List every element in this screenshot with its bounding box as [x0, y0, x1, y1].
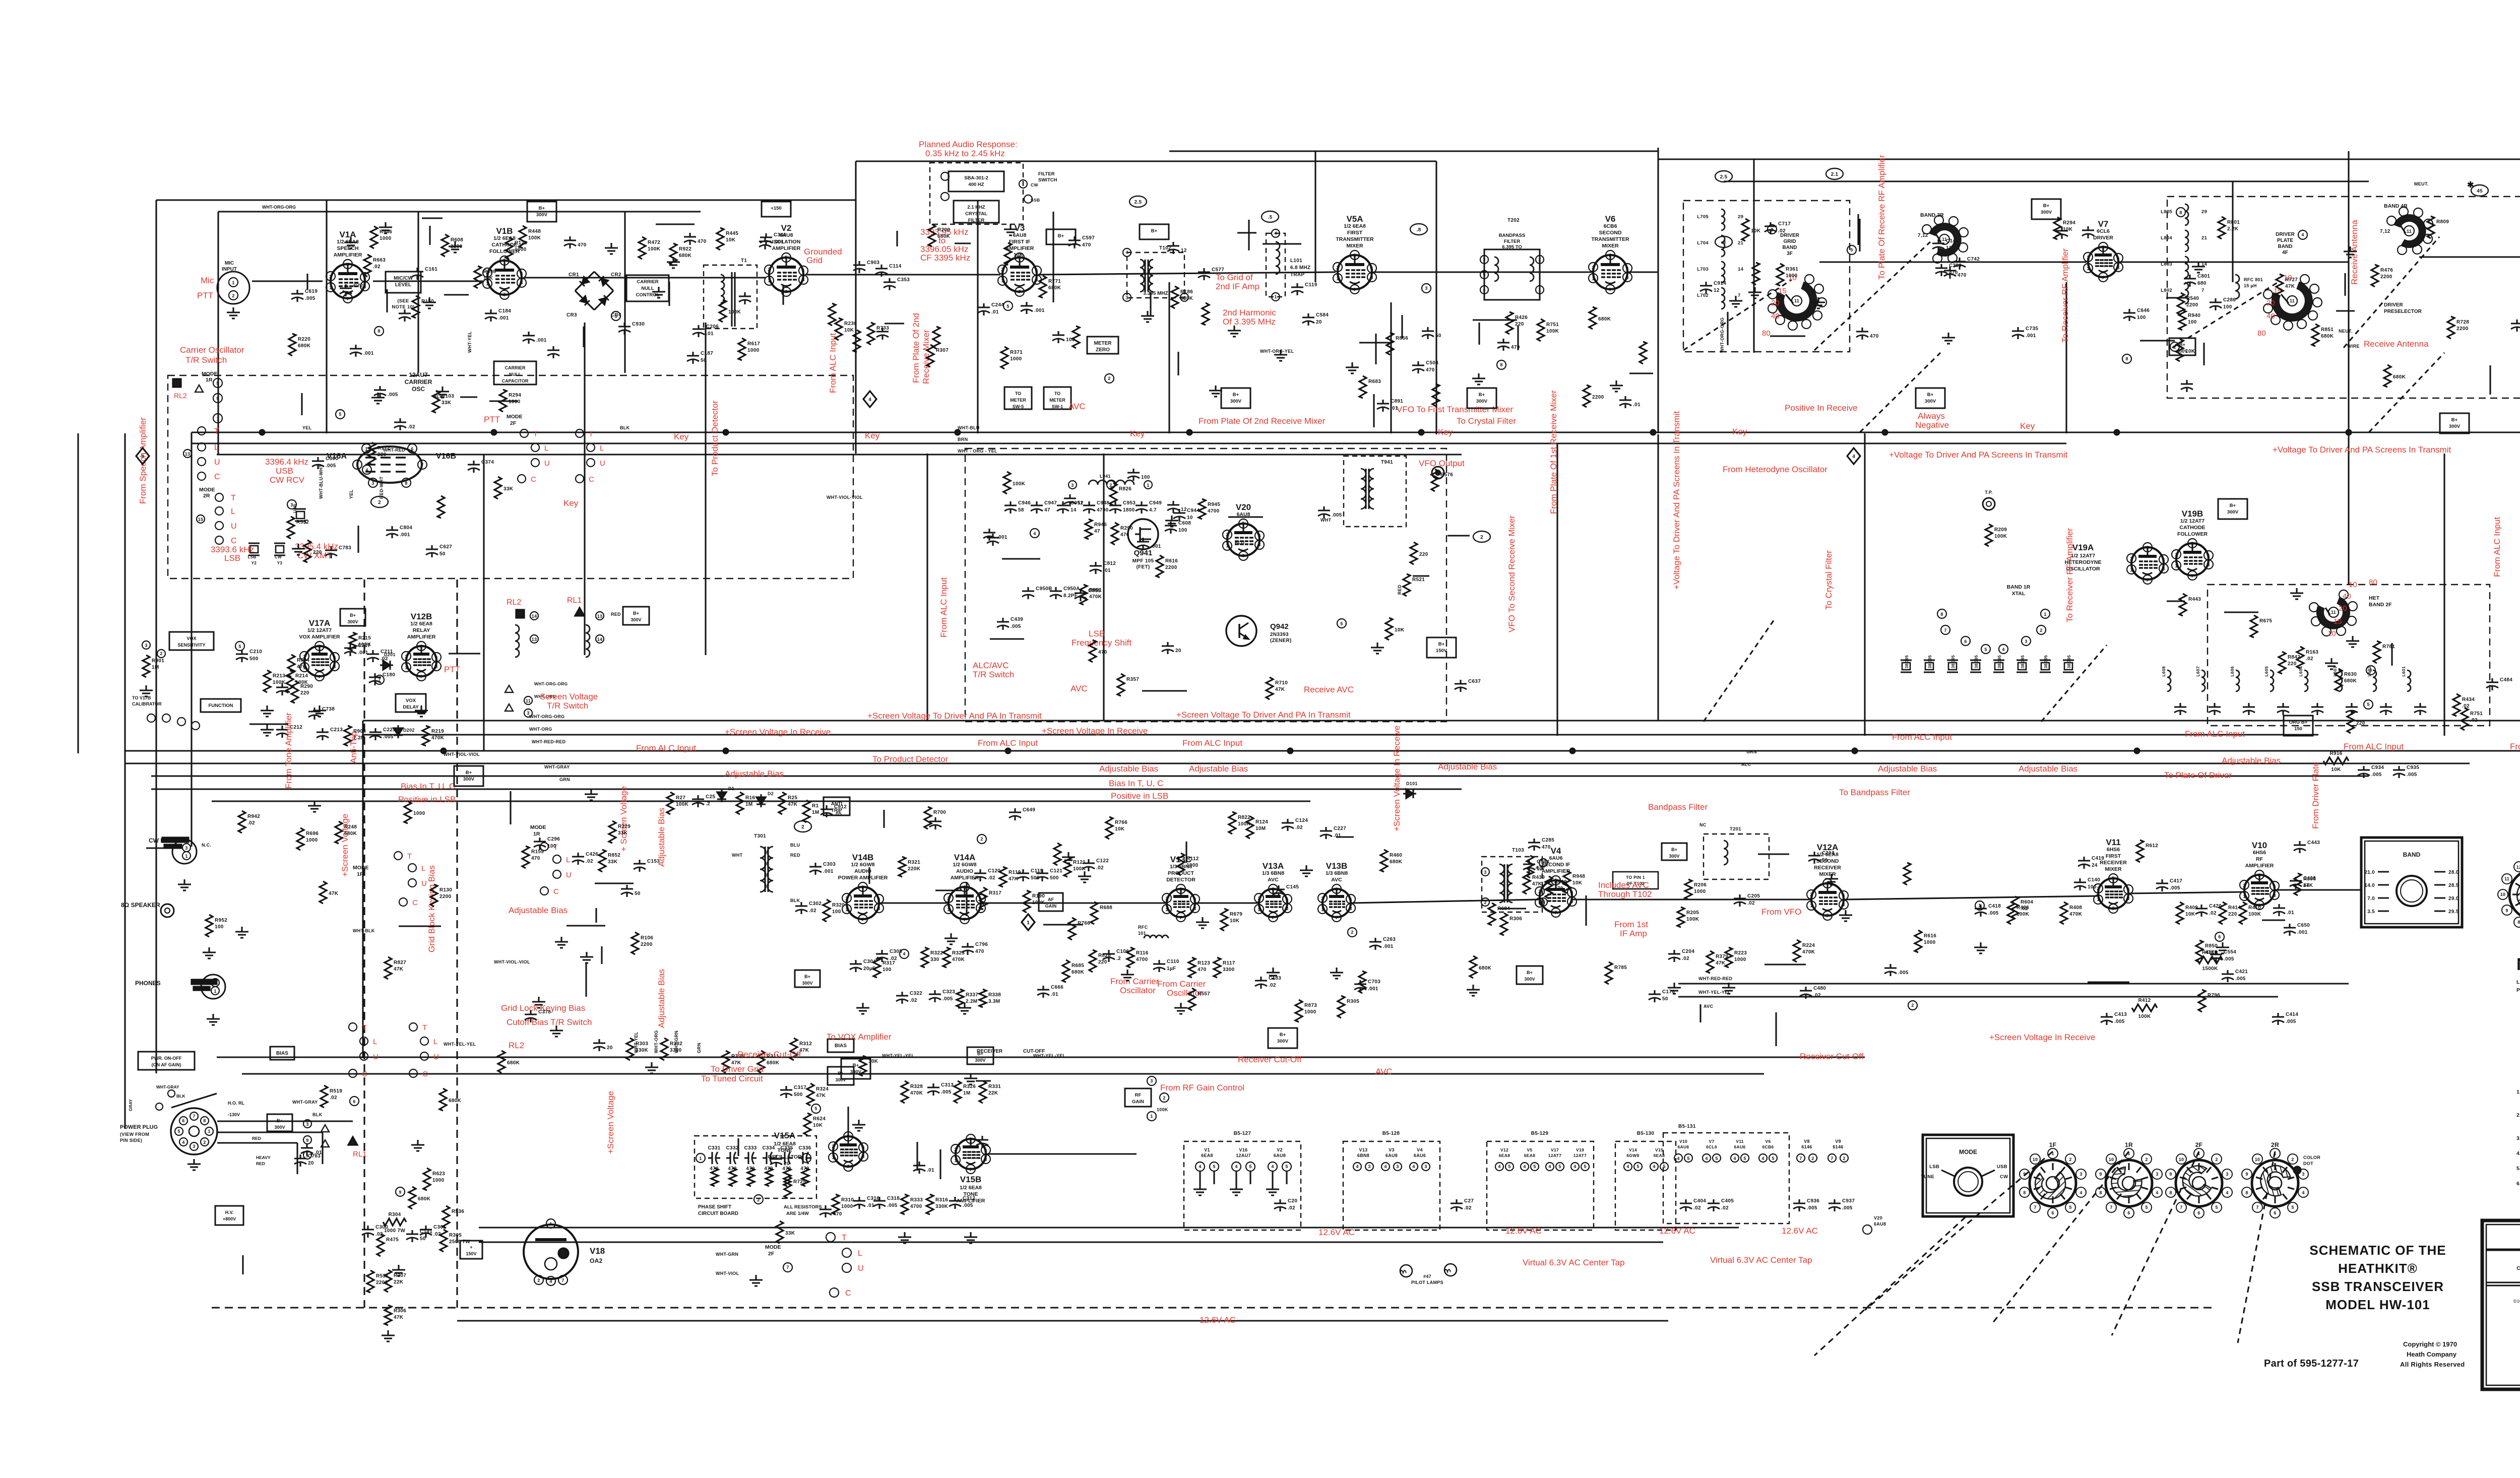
- svg-text:Adjustable Bias: Adjustable Bias: [1878, 764, 1937, 774]
- svg-text:C300: C300: [375, 1225, 388, 1230]
- svg-text:B+: B+: [1479, 392, 1485, 398]
- svg-text:V17: V17: [1551, 1147, 1559, 1152]
- svg-text:3: 3: [1396, 1164, 1399, 1169]
- svg-text:2: 2: [954, 1147, 957, 1152]
- svg-text:6146: 6146: [1801, 1144, 1812, 1149]
- svg-text:1000: 1000: [306, 838, 318, 843]
- svg-text:2: 2: [203, 1140, 206, 1145]
- svg-text:WHT-ORG-ORG: WHT-ORG-ORG: [262, 205, 296, 210]
- svg-text:.01: .01: [2287, 910, 2294, 916]
- svg-text:7: 7: [421, 463, 423, 468]
- includes AVC box: [1613, 872, 1658, 889]
- svg-text:From ALC Input: From ALC Input: [2510, 742, 2520, 751]
- svg-text:470: 470: [1870, 334, 1879, 339]
- svg-text:L: L: [373, 1038, 377, 1046]
- svg-text:R220: R220: [298, 337, 310, 342]
- svg-text:5: 5: [1179, 887, 1182, 892]
- svg-text:C891: C891: [1391, 399, 1403, 404]
- svg-text:C140: C140: [2088, 877, 2100, 883]
- heterodyne coil bank L601-L608: [2167, 670, 2171, 691]
- svg-text:7: 7: [1738, 293, 1741, 298]
- power switch box: [138, 1052, 195, 1070]
- svg-text:B+: B+: [350, 613, 356, 618]
- svg-text:3: 3: [145, 643, 147, 648]
- component cluster receiver mixers: [2196, 940, 2203, 962]
- VOX sensitivity control: [169, 632, 214, 650]
- svg-text:C950B: C950B: [1036, 586, 1052, 592]
- svg-text:1000: 1000: [380, 236, 392, 241]
- svg-text:.2: .2: [1116, 956, 1121, 961]
- svg-text:3F: 3F: [1787, 251, 1793, 256]
- svg-text:500: 500: [1050, 875, 1059, 881]
- svg-text:C322: C322: [910, 991, 922, 996]
- svg-text:2.1 KHZ: 2.1 KHZ: [967, 205, 985, 210]
- svg-text:.02: .02: [2021, 906, 2028, 912]
- svg-text:BAND 2F: BAND 2F: [2369, 602, 2392, 608]
- svg-text:MODE: MODE: [202, 371, 218, 377]
- svg-text:2200: 2200: [2456, 326, 2469, 332]
- svg-text:MIXER: MIXER: [2105, 866, 2122, 872]
- svg-text:33K: 33K: [503, 486, 514, 492]
- svg-text:6: 6: [862, 1145, 864, 1150]
- svg-text:ARE 1/4W: ARE 1/4W: [786, 1211, 809, 1216]
- svg-text:10: 10: [2255, 1157, 2260, 1162]
- tube V10: [2244, 875, 2275, 905]
- svg-text:C723: C723: [353, 283, 366, 289]
- svg-text:SECOND: SECOND: [1599, 230, 1622, 236]
- svg-text:C332: C332: [726, 1145, 738, 1151]
- svg-text:Adjustable Bias: Adjustable Bias: [509, 906, 568, 915]
- svg-text:15: 15: [1778, 287, 1787, 295]
- svg-text:5: 5: [216, 381, 219, 386]
- svg-text:5: 5: [318, 644, 321, 649]
- svg-text:6: 6: [1570, 890, 1573, 895]
- svg-text:100K: 100K: [1994, 534, 2007, 539]
- svg-text:470: 470: [1536, 865, 1545, 871]
- svg-text:C503: C503: [1426, 360, 1438, 366]
- svg-text:R290: R290: [1120, 526, 1133, 531]
- svg-text:To Bandpass Filter: To Bandpass Filter: [1839, 788, 1910, 797]
- svg-text:C180: C180: [383, 672, 395, 678]
- svg-text:Adjustable Bias: Adjustable Bias: [657, 808, 666, 867]
- svg-text:7: 7: [2110, 1205, 2112, 1210]
- svg-text:2: 2: [1811, 1156, 1814, 1161]
- B+ supply boxes: [527, 202, 556, 222]
- svg-text:C953: C953: [1123, 500, 1136, 506]
- svg-text:WHT-YEL-YEL: WHT-YEL-YEL: [1698, 990, 1731, 995]
- svg-text:0.35 kHz to 2.45 kHz: 0.35 kHz to 2.45 kHz: [925, 149, 1005, 158]
- svg-text:.01: .01: [1051, 992, 1058, 997]
- svg-text:L705: L705: [1697, 214, 1709, 220]
- svg-text:HET: HET: [2369, 595, 2380, 601]
- svg-text:1/3 6BN8: 1/3 6BN8: [1262, 870, 1285, 876]
- svg-text:80: 80: [2257, 329, 2266, 338]
- V14 support: [899, 857, 906, 877]
- svg-text:R312: R312: [799, 1041, 812, 1047]
- svg-text:.01: .01: [1391, 406, 1398, 411]
- svg-text:FUNCTION: FUNCTION: [208, 703, 233, 709]
- svg-text:6CL6: 6CL6: [1706, 1144, 1717, 1149]
- svg-text:300V: 300V: [1925, 399, 1936, 404]
- svg-text:SWITCH: SWITCH: [1038, 177, 1057, 183]
- svg-text:DOT: DOT: [2303, 1161, 2313, 1166]
- svg-text:3396.4 kHz: 3396.4 kHz: [265, 457, 308, 467]
- svg-text:.005: .005: [1898, 970, 1909, 976]
- svg-text:6EA8: 6EA8: [1499, 1153, 1510, 1158]
- svg-text:10: 10: [2349, 581, 2357, 589]
- svg-text:4: 4: [1677, 1156, 1679, 1161]
- svg-text:6AU6: 6AU6: [1678, 1144, 1689, 1149]
- svg-text:R476: R476: [2380, 268, 2393, 273]
- svg-text:R361: R361: [1786, 267, 1798, 272]
- svg-text:47K: 47K: [788, 802, 798, 807]
- AF gain box: [1039, 893, 1063, 911]
- svg-text:C: C: [845, 1289, 851, 1298]
- svg-text:100K: 100K: [2248, 912, 2261, 917]
- svg-text:500: 500: [249, 656, 259, 662]
- svg-text:R785: R785: [1614, 965, 1627, 971]
- svg-text:USB: USB: [276, 466, 293, 476]
- svg-text:6CB6: 6CB6: [1762, 1144, 1774, 1149]
- svg-text:Through T102: Through T102: [1598, 889, 1652, 899]
- svg-text:C120: C120: [988, 868, 1000, 874]
- phones jack: [201, 975, 225, 999]
- svg-text:7: 7: [861, 917, 864, 922]
- svg-text:V14A: V14A: [954, 853, 976, 862]
- svg-text:WHT-YEL: WHT-YEL: [467, 331, 472, 353]
- svg-text:100K: 100K: [648, 246, 661, 252]
- svg-text:C646: C646: [2137, 308, 2150, 313]
- diodes table: [2482, 1220, 2520, 1389]
- svg-text:C205: C205: [1747, 893, 1760, 899]
- svg-text:2: 2: [378, 500, 381, 505]
- svg-text:R106: R106: [641, 935, 653, 941]
- svg-text:.02: .02: [408, 424, 415, 430]
- svg-text:C378: C378: [538, 1009, 551, 1015]
- svg-text:220: 220: [2288, 661, 2297, 667]
- svg-text:5: 5: [1743, 1156, 1746, 1161]
- svg-text:Adjustable Bias: Adjustable Bias: [2019, 764, 2077, 774]
- svg-text:C: C: [214, 473, 220, 481]
- svg-text:T/R Switch: T/R Switch: [185, 355, 227, 365]
- svg-text:1: 1: [216, 416, 219, 421]
- svg-text:C335: C335: [780, 1145, 793, 1151]
- svg-text:470: 470: [1098, 650, 1107, 655]
- svg-text:R781: R781: [2382, 644, 2395, 650]
- svg-text:5: 5: [1984, 647, 1987, 652]
- svg-text:DETECTOR: DETECTOR: [1166, 877, 1195, 883]
- svg-text:2: 2: [768, 267, 770, 272]
- svg-text:R696: R696: [306, 831, 319, 837]
- svg-text:.001: .001: [498, 315, 509, 321]
- svg-text:50: 50: [635, 891, 641, 896]
- svg-text:C313: C313: [941, 1082, 954, 1088]
- svg-text:R371: R371: [1010, 350, 1023, 355]
- svg-text:10K: 10K: [1115, 826, 1125, 832]
- svg-text:4: 4: [1199, 1164, 1201, 1169]
- svg-text:RFC: RFC: [1138, 925, 1148, 930]
- svg-text:300V: 300V: [1476, 399, 1488, 404]
- V17A V12B support parts: [264, 670, 271, 692]
- svg-text:BRN: BRN: [958, 437, 968, 442]
- svg-text:2: 2: [160, 651, 162, 656]
- svg-text:10K: 10K: [2331, 767, 2341, 773]
- svg-text:100K: 100K: [528, 235, 541, 241]
- svg-text:(SEE: (SEE: [397, 298, 409, 304]
- svg-text:SCHEMATIC OF THE: SCHEMATIC OF THE: [2309, 1243, 2446, 1258]
- svg-text:1: 1: [1274, 294, 1277, 299]
- svg-text:SPEECH: SPEECH: [337, 245, 358, 251]
- svg-text:C404: C404: [1693, 1198, 1706, 1204]
- svg-text:29.0: 29.0: [2448, 896, 2459, 902]
- svg-text:10K: 10K: [1751, 228, 1761, 234]
- svg-text:6AU8: 6AU8: [1874, 1222, 1886, 1227]
- svg-text:MIXER: MIXER: [1346, 243, 1363, 249]
- svg-text:BIAS: BIAS: [835, 1043, 847, 1049]
- svg-text:From ALC Input: From ALC Input: [636, 743, 696, 753]
- svg-text:.005: .005: [941, 1089, 952, 1095]
- svg-text:R229: R229: [618, 824, 631, 829]
- svg-text:V4: V4: [1551, 846, 1561, 856]
- svg-text:B+: B+: [277, 1118, 283, 1123]
- svg-text:V7: V7: [2098, 219, 2109, 229]
- band switch 3R arc: [1932, 227, 1958, 253]
- svg-text:From VFO: From VFO: [1761, 907, 1801, 917]
- svg-text:VOX AMPLIFIER: VOX AMPLIFIER: [299, 634, 340, 640]
- svg-text:8: 8: [1500, 362, 1502, 367]
- svg-text:V13A: V13A: [1263, 861, 1284, 871]
- svg-text:To Grid of: To Grid of: [1216, 273, 1253, 282]
- svg-text:5: 5: [177, 1129, 180, 1134]
- svg-text:WHT-ORG-ORG: WHT-ORG-ORG: [534, 681, 568, 686]
- svg-text:R379: R379: [1716, 954, 1728, 959]
- svg-text:R186: R186: [1180, 289, 1193, 295]
- svg-text:Of 3.395 MHz: Of 3.395 MHz: [1223, 317, 1276, 327]
- svg-text:.02: .02: [1721, 1205, 1729, 1211]
- mode 1F second cluster: [349, 1023, 357, 1031]
- svg-text:1000: 1000: [841, 1204, 853, 1209]
- svg-text:300V: 300V: [1230, 399, 1242, 404]
- svg-text:C935: C935: [2407, 765, 2419, 770]
- driver grid band switch 3F: [1780, 285, 1813, 317]
- svg-text:38.395: 38.395: [2021, 655, 2025, 669]
- svg-text:3: 3: [1125, 295, 1128, 300]
- svg-text:LSB: LSB: [224, 553, 240, 563]
- svg-text:6: 6: [2127, 887, 2129, 892]
- svg-text:33K: 33K: [618, 830, 628, 836]
- svg-text:4: 4: [1626, 1164, 1629, 1169]
- svg-text:C608: C608: [1178, 521, 1191, 526]
- svg-text:R851: R851: [2321, 327, 2334, 333]
- svg-text:6: 6: [1626, 266, 1628, 271]
- svg-text:C119: C119: [1305, 282, 1317, 288]
- svg-text:COMPONENT DESIGNATION: COMPONENT DESIGNATION: [2516, 1265, 2520, 1271]
- svg-text:R531: R531: [376, 1273, 389, 1279]
- VFO output jack: [1432, 467, 1444, 479]
- svg-text:6: 6: [2117, 256, 2119, 261]
- svg-text:47K: 47K: [816, 1093, 826, 1099]
- svg-text:RED: RED: [611, 612, 621, 617]
- svg-text:R248: R248: [344, 824, 357, 830]
- svg-text:PTT: PTT: [197, 291, 213, 300]
- dashed enclosure driver plate band / preselector: [2167, 197, 2520, 398]
- svg-text:C: C: [553, 887, 559, 896]
- svg-text:Carrier Oscillator: Carrier Oscillator: [180, 345, 244, 355]
- svg-text:5: 5: [2145, 1205, 2148, 1210]
- svg-text:12.6V AC: 12.6V AC: [1200, 1315, 1236, 1325]
- svg-text:RECEIVER: RECEIVER: [1814, 865, 1841, 871]
- svg-text:Adjustable Bias: Adjustable Bias: [725, 769, 784, 779]
- svg-text:3.5: 3.5: [2367, 909, 2375, 915]
- svg-text:2: 2: [1592, 265, 1594, 270]
- svg-text:.001: .001: [363, 351, 374, 356]
- svg-text:R688: R688: [1100, 905, 1112, 911]
- svg-text:10: 10: [2033, 1157, 2038, 1162]
- svg-text:CATHODE: CATHODE: [2179, 525, 2205, 531]
- svg-text:R940: R940: [2188, 313, 2200, 318]
- svg-text:100K: 100K: [676, 802, 689, 807]
- svg-text:R624: R624: [813, 1116, 826, 1122]
- svg-text:4: 4: [1271, 1164, 1274, 1169]
- tube V14B: [847, 887, 879, 919]
- svg-text:1: 1: [954, 1158, 957, 1163]
- socket voltage group B5-129: [1487, 1141, 1594, 1230]
- svg-text:MEUT.: MEUT.: [2414, 181, 2429, 186]
- svg-text:6: 6: [2127, 1210, 2130, 1215]
- svg-text:10: 10: [2327, 629, 2336, 638]
- svg-text:B+: B+: [1233, 392, 1239, 398]
- svg-text:1000: 1000: [1924, 940, 1936, 945]
- svg-text:MODE: MODE: [507, 414, 523, 420]
- svg-text:NULL: NULL: [509, 372, 521, 377]
- svg-text:NULL: NULL: [641, 286, 654, 291]
- svg-text:4: 4: [1498, 1164, 1500, 1169]
- svg-text:RED: RED: [252, 1136, 261, 1141]
- svg-text:C738: C738: [322, 706, 335, 712]
- svg-text:3: 3: [2226, 1172, 2228, 1177]
- svg-text:WHT-RED: WHT-RED: [383, 447, 405, 453]
- svg-text:47K: 47K: [1275, 687, 1285, 692]
- svg-text:R608: R608: [451, 237, 463, 243]
- svg-text:ORG B+: ORG B+: [2289, 720, 2308, 725]
- svg-text:C121: C121: [1050, 868, 1062, 874]
- svg-text:AMPLIFIER: AMPLIFIER: [1542, 868, 1570, 874]
- svg-text:2: 2: [329, 274, 332, 279]
- svg-text:3: 3: [1071, 483, 1074, 488]
- svg-text:AVC: AVC: [1268, 877, 1279, 883]
- svg-text:5: 5: [2191, 541, 2193, 546]
- svg-text:L: L: [433, 1038, 437, 1046]
- svg-text:R519: R519: [330, 1088, 342, 1094]
- svg-text:RL1: RL1: [567, 596, 582, 605]
- svg-text:R728: R728: [2456, 319, 2469, 325]
- svg-text:5: 5: [2215, 1205, 2218, 1210]
- svg-text:4: 4: [1523, 1164, 1526, 1169]
- svg-text:12.6V AC: 12.6V AC: [1782, 1226, 1818, 1236]
- svg-text:6: 6: [2051, 1210, 2054, 1215]
- svg-text:U: U: [214, 458, 220, 467]
- svg-text:C414: C414: [2286, 1012, 2298, 1017]
- svg-text:Screen Voltage: Screen Voltage: [540, 692, 598, 701]
- svg-text:To VOX Amplifier: To VOX Amplifier: [827, 1032, 892, 1042]
- power dropping resistors: [383, 1218, 406, 1226]
- svg-text:.02: .02: [1295, 825, 1303, 830]
- svg-text:ZERO: ZERO: [1096, 347, 1110, 353]
- svg-text:ALC/AVC: ALC/AVC: [973, 661, 1009, 670]
- svg-text:6: 6: [2197, 1210, 2200, 1215]
- svg-text:.02: .02: [373, 264, 381, 270]
- svg-text:9: 9: [399, 1190, 401, 1195]
- svg-text:6: 6: [520, 271, 523, 276]
- svg-text:1: 1: [832, 1155, 834, 1160]
- svg-text:TRANSMITTER: TRANSMITTER: [1336, 236, 1374, 242]
- svg-text:2.1: 2.1: [1831, 172, 1839, 177]
- svg-text:680K: 680K: [1048, 285, 1061, 291]
- svg-text:.001: .001: [2026, 333, 2036, 339]
- svg-text:1: 1: [1027, 920, 1030, 926]
- svg-text:R852: R852: [608, 853, 620, 858]
- svg-text:C114: C114: [889, 264, 902, 269]
- svg-text:PTT: PTT: [444, 665, 460, 674]
- svg-text:To Tuned Circuit: To Tuned Circuit: [701, 1074, 763, 1083]
- wafer switch 2F bottom: [2176, 1160, 2222, 1206]
- svg-text:1: 1: [549, 1222, 552, 1227]
- component cluster driver: [2371, 265, 2378, 287]
- svg-text:330K: 330K: [935, 1204, 949, 1209]
- svg-text:5: 5: [1715, 1156, 1718, 1161]
- svg-text:NC: NC: [1699, 822, 1707, 827]
- svg-text:+Screen Voltage To Driver And: +Screen Voltage To Driver And PA In Tran…: [1176, 710, 1351, 720]
- tube V16A V16B carrier oscillator: [357, 446, 422, 483]
- svg-text:1: 1: [214, 989, 216, 994]
- dashed enclosure L101 trap: [1266, 233, 1285, 297]
- svg-text:C946: C946: [1018, 500, 1031, 506]
- svg-text:WHT: WHT: [1320, 518, 1332, 523]
- svg-text:7: 7: [2102, 275, 2104, 280]
- svg-text:4: 4: [2302, 1190, 2304, 1195]
- svg-text:1: 1: [2175, 563, 2177, 568]
- svg-text:+Voltage To Driver And PA Scre: +Voltage To Driver And PA Screens In Tra…: [1672, 411, 1681, 590]
- svg-text:1: 1: [2051, 1151, 2054, 1156]
- svg-text:1000: 1000: [747, 348, 760, 353]
- svg-text:10K: 10K: [844, 328, 854, 333]
- svg-text:C176: C176: [1662, 989, 1675, 995]
- svg-text:.001: .001: [1151, 544, 1161, 549]
- svg-text:20: 20: [308, 1161, 314, 1166]
- svg-text:5: 5: [2367, 702, 2369, 707]
- svg-text:680K: 680K: [2393, 374, 2406, 380]
- svg-text:C27: C27: [1464, 1198, 1474, 1204]
- svg-text:38.395: 38.395: [1928, 655, 1932, 669]
- MODE knob box: [1923, 1135, 2013, 1216]
- svg-text:5: 5: [1242, 521, 1244, 526]
- T103 transformer: [1482, 857, 1542, 912]
- svg-text:14.0: 14.0: [2364, 883, 2375, 888]
- svg-text:50: 50: [420, 1236, 426, 1242]
- svg-text:T202: T202: [1507, 218, 1520, 223]
- junction dots: [260, 430, 265, 435]
- tone amp left parts: [807, 1083, 814, 1106]
- svg-text:MIC: MIC: [225, 261, 234, 266]
- tone oscillator bias controls: [661, 1038, 668, 1060]
- svg-text:R356: R356: [2303, 876, 2316, 882]
- svg-text:To Receiver RF Amplifier: To Receiver RF Amplifier: [2060, 248, 2070, 343]
- svg-text:6: 6: [1349, 897, 1352, 902]
- svg-text:2: 2: [2175, 552, 2177, 557]
- svg-text:100K: 100K: [1157, 1107, 1168, 1112]
- svg-text:6: 6: [1842, 893, 1845, 898]
- svg-text:RED: RED: [1397, 585, 1402, 595]
